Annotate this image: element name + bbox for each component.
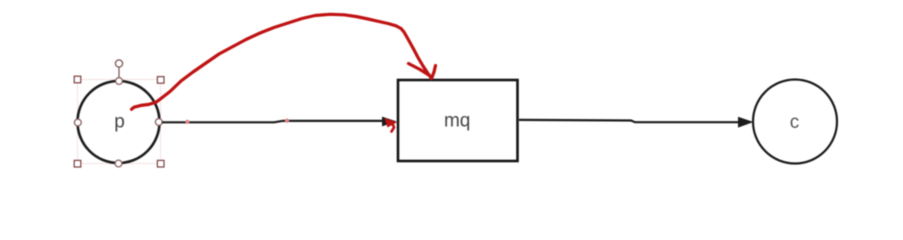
svg-text:p: p xyxy=(114,112,125,133)
svg-text:mq: mq xyxy=(444,111,470,132)
svg-text:c: c xyxy=(790,112,800,133)
